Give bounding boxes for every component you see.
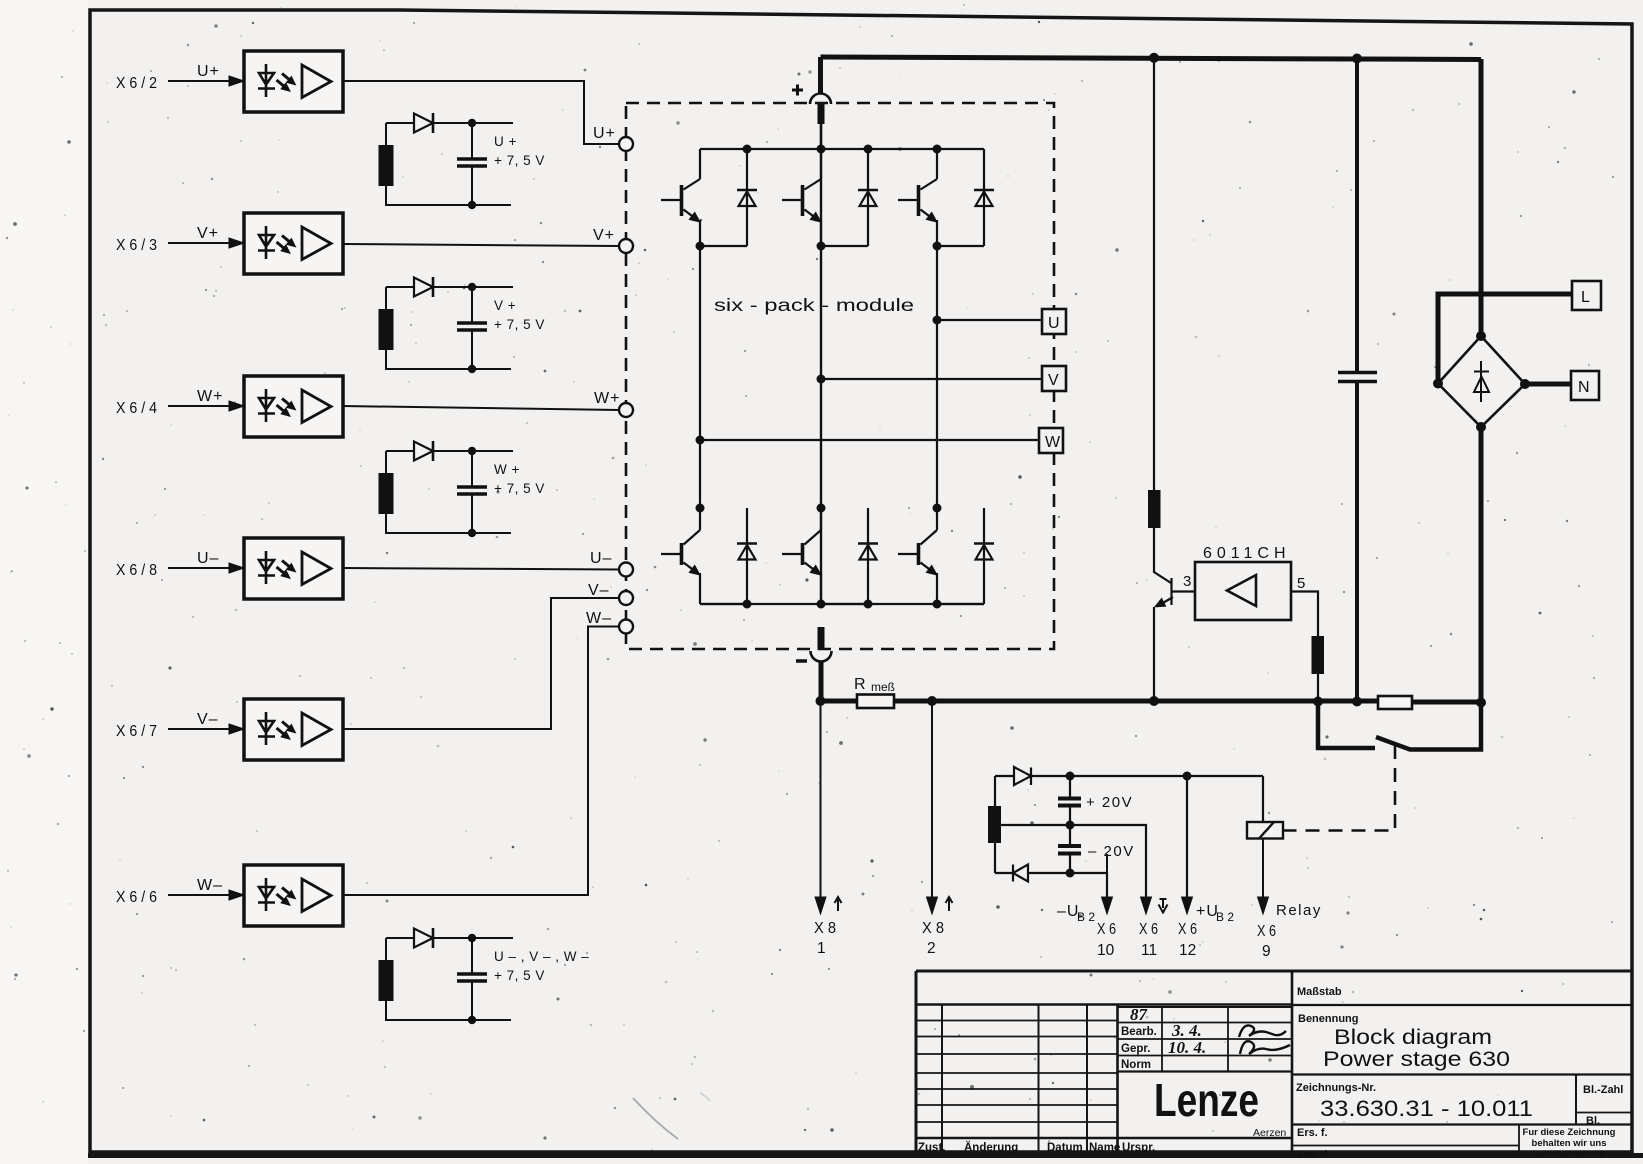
svg-text:U: U (1048, 315, 1061, 332)
svg-text:Fur diese Zeichnung: Fur diese Zeichnung (1523, 1127, 1616, 1138)
svg-text:+ 20V: + 20V (1086, 794, 1133, 811)
svg-text:W+: W+ (594, 390, 620, 407)
svg-text:V+: V+ (593, 227, 615, 244)
svg-text:X 8: X 8 (922, 920, 944, 937)
svg-text:1: 1 (817, 940, 826, 957)
svg-text:Zust.: Zust. (918, 1142, 945, 1154)
svg-text:5: 5 (1297, 575, 1307, 592)
svg-text:Aerzen: Aerzen (1253, 1127, 1286, 1139)
svg-text:W: W (1045, 434, 1061, 451)
svg-text:+ 7, 5 V: + 7, 5 V (494, 968, 545, 983)
svg-text:six - pack - module: six - pack - module (714, 295, 914, 315)
svg-text:behalten wir uns: behalten wir uns (1532, 1138, 1607, 1149)
svg-text:87: 87 (1130, 1005, 1149, 1024)
svg-text:Datum: Datum (1047, 1142, 1083, 1154)
svg-text:B 2: B 2 (1077, 910, 1095, 924)
svg-text:Power stage 630: Power stage 630 (1323, 1048, 1510, 1071)
svg-text:X 6: X 6 (1139, 921, 1158, 938)
svg-text:9: 9 (1262, 943, 1271, 960)
svg-text:alle Rechte vor: alle Rechte vor (1535, 1149, 1603, 1160)
svg-text:+ 7, 5 V: + 7, 5 V (494, 153, 545, 168)
svg-text:Relay: Relay (1276, 902, 1322, 919)
svg-text:3: 3 (1183, 573, 1193, 590)
svg-text:Lenze: Lenze (1154, 1074, 1259, 1126)
svg-text:X 6 / 6: X 6 / 6 (116, 889, 157, 906)
svg-text:W +: W + (494, 462, 520, 477)
svg-text:V: V (1048, 372, 1060, 389)
svg-text:L: L (1581, 289, 1591, 306)
svg-text:Bl.: Bl. (1586, 1115, 1600, 1127)
svg-text:X 6 / 2: X 6 / 2 (116, 75, 157, 92)
svg-text:X 6 / 7: X 6 / 7 (116, 723, 157, 740)
svg-text:Urspr.: Urspr. (1122, 1142, 1155, 1154)
svg-text:+ 7, 5 V: + 7, 5 V (494, 481, 545, 496)
svg-text:X 6 / 4: X 6 / 4 (116, 400, 157, 417)
svg-text:U–: U– (590, 550, 612, 567)
svg-text:R: R (854, 676, 867, 693)
svg-text:X 8: X 8 (814, 920, 836, 937)
svg-text:V–: V– (588, 582, 610, 599)
svg-text:Änderung: Änderung (964, 1141, 1018, 1154)
svg-text:+ 7, 5 V: + 7, 5 V (494, 317, 545, 332)
svg-text:U+: U+ (593, 125, 616, 142)
svg-text:12: 12 (1179, 942, 1196, 959)
svg-text:X 6: X 6 (1178, 921, 1197, 938)
svg-text:33.630.31 - 10.011: 33.630.31 - 10.011 (1320, 1096, 1533, 1121)
svg-text:U +: U + (494, 134, 517, 149)
svg-text:U+: U+ (197, 63, 220, 80)
svg-text:Bl.-Zahl: Bl.-Zahl (1583, 1084, 1623, 1096)
svg-text:meß: meß (871, 680, 895, 694)
svg-text:Norm: Norm (1121, 1059, 1151, 1071)
svg-text:2: 2 (927, 940, 936, 957)
svg-text:U – , V – , W –: U – , V – , W – (494, 949, 589, 964)
svg-text:V–: V– (197, 711, 219, 728)
svg-text:W–: W– (197, 877, 223, 894)
svg-text:10: 10 (1097, 942, 1115, 959)
svg-text:V+: V+ (197, 225, 219, 242)
svg-text:W+: W+ (197, 388, 223, 405)
svg-text:Maßstab: Maßstab (1297, 986, 1342, 998)
svg-text:Benennung: Benennung (1298, 1013, 1359, 1025)
svg-text:V +: V + (494, 298, 516, 313)
svg-text:Bearb.: Bearb. (1121, 1026, 1157, 1038)
svg-text:X 6 / 8: X 6 / 8 (116, 562, 157, 579)
svg-text:U–: U– (197, 550, 219, 567)
svg-text:Name: Name (1089, 1142, 1120, 1154)
svg-text:X 6 / 3: X 6 / 3 (116, 237, 157, 254)
svg-text:6011CH: 6011CH (1203, 545, 1291, 562)
svg-text:B 2: B 2 (1216, 910, 1234, 924)
svg-text:X 6: X 6 (1257, 923, 1276, 940)
svg-text:Zeichnungs-Nr.: Zeichnungs-Nr. (1296, 1082, 1376, 1094)
svg-text:Block diagram: Block diagram (1334, 1026, 1492, 1049)
svg-text:Ers. f.: Ers. f. (1297, 1127, 1328, 1139)
svg-text:Ers. d.: Ers. d. (1297, 1149, 1331, 1161)
svg-text:X 6: X 6 (1097, 921, 1116, 938)
svg-text:Gepr.: Gepr. (1121, 1043, 1150, 1055)
svg-text:W–: W– (586, 610, 612, 627)
svg-text:10. 4.: 10. 4. (1168, 1038, 1206, 1057)
svg-text:11: 11 (1141, 942, 1157, 959)
svg-text:N: N (1578, 379, 1591, 396)
svg-text:– 20V: – 20V (1088, 843, 1135, 860)
